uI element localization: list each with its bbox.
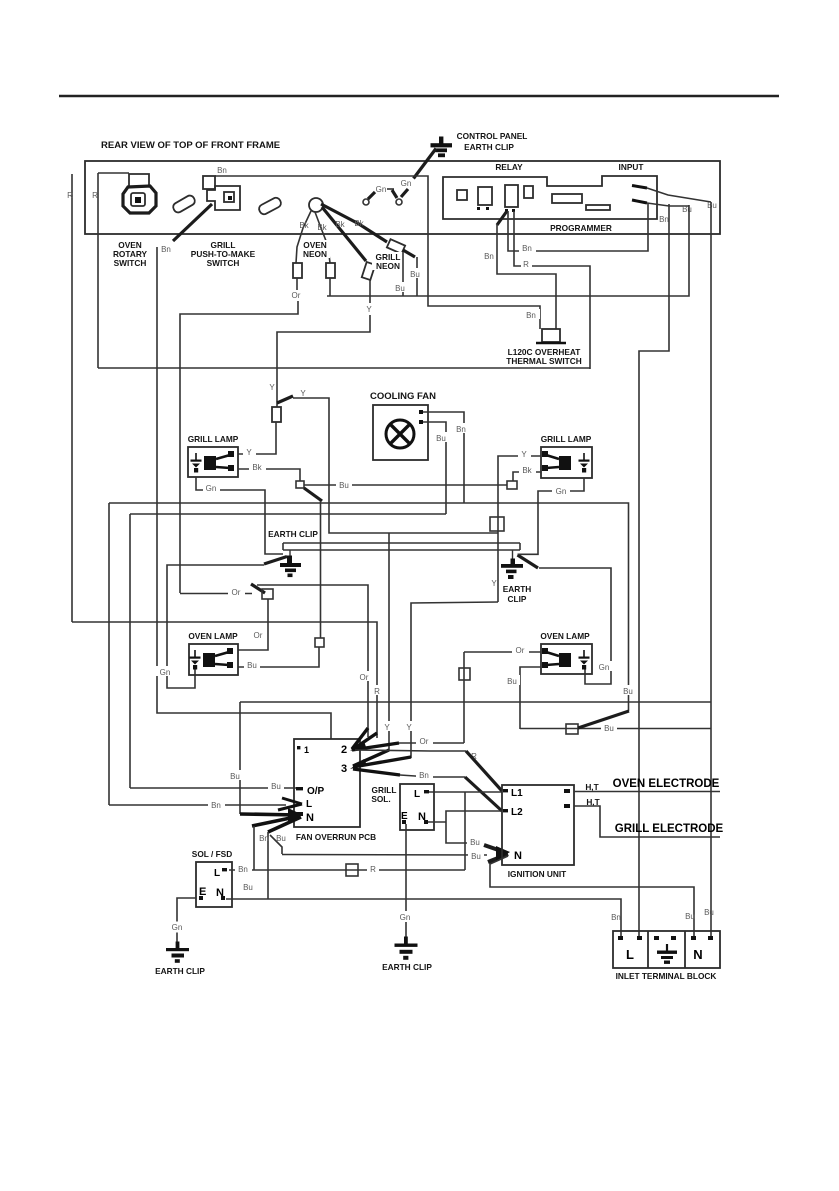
- wire: Y branch to bus 533: [293, 398, 498, 533]
- oven neon bulb: [309, 198, 323, 212]
- label Bu ign2: [468, 850, 484, 860]
- svg-text:GRILL ELECTRODE: GRILL ELECTRODE: [615, 823, 724, 835]
- fan pin 1: [419, 410, 423, 414]
- label Bu: [407, 268, 423, 278]
- label Y drop1: [381, 721, 394, 731]
- svg-text:Y: Y: [384, 723, 390, 732]
- svg-text:Bn: Bn: [217, 166, 227, 175]
- wire: R line from pin 3 to ignition L1: [355, 750, 466, 751]
- svg-text:FAN OVERRUN PCB: FAN OVERRUN PCB: [296, 832, 376, 842]
- label R on relay wire: [521, 259, 532, 268]
- Gn connector 1: [363, 185, 394, 205]
- svg-text:Y: Y: [521, 450, 527, 459]
- wire: earth clip feed + Gn drop to oven lamp: [167, 565, 264, 688]
- label Or at oven lamp: [250, 629, 267, 639]
- svg-text:THERMAL SWITCH: THERMAL SWITCH: [506, 356, 581, 366]
- wire: R riser to bottom R line: [464, 792, 466, 870]
- label Gn: [203, 482, 220, 492]
- label R bottom: [367, 863, 379, 873]
- wire: Bn input drop to inlet L: [639, 204, 669, 936]
- svg-text:Bk: Bk: [317, 223, 327, 232]
- wire: bus514 drop to PCB O/P: [129, 514, 131, 788]
- svg-text:CLIP: CLIP: [508, 594, 527, 604]
- inlet divider 2: [684, 931, 686, 968]
- programmer component 5: [552, 194, 582, 203]
- wire: Y from bus533 to pin3: [388, 533, 390, 751]
- wire: L2 horizontal + drop: [446, 811, 502, 843]
- svg-text:EARTH CLIP: EARTH CLIP: [464, 142, 514, 152]
- arrow Bu1 into ignition N: [484, 845, 507, 853]
- programmer box: [443, 176, 657, 219]
- svg-text:Bu: Bu: [682, 205, 692, 214]
- svg-text:Or: Or: [420, 737, 429, 746]
- label Bu fan: [433, 432, 449, 442]
- labels: GRILL PUSH-TO-MAKE SWITCH: [191, 240, 256, 268]
- control panel earth clip ground symbol: [431, 137, 453, 158]
- svg-text:PROGRAMMER: PROGRAMMER: [550, 223, 612, 233]
- wire: Or drop to pin2 line: [463, 652, 465, 743]
- svg-text:2: 2: [341, 744, 347, 756]
- Y branch blade: [277, 396, 293, 403]
- frame box: rear view of front frame: [85, 161, 720, 234]
- svg-text:L1: L1: [511, 788, 523, 799]
- svg-text:OVEN LAMP: OVEN LAMP: [540, 631, 590, 641]
- wire: grill sol N to ignition N: [428, 821, 446, 823]
- Or switch blade: [251, 584, 265, 593]
- label Bu2: [392, 282, 408, 292]
- label Bn sol: [235, 863, 252, 873]
- svg-text:Bn: Bn: [259, 834, 269, 843]
- Bu switch blade: [578, 711, 629, 728]
- svg-text:N: N: [693, 947, 702, 962]
- svg-text:Bn: Bn: [526, 311, 536, 320]
- wire: Bu2 line into ignition N: [282, 854, 487, 857]
- svg-text:R: R: [370, 865, 376, 874]
- svg-text:OVEN ELECTRODE: OVEN ELECTRODE: [613, 778, 720, 790]
- svg-text:Gn: Gn: [599, 663, 610, 672]
- wire: bus y=622 (R to PCB pin2): [72, 622, 377, 738]
- wire: grill sol E to earth clip: [405, 824, 407, 938]
- svg-text:1: 1: [304, 745, 309, 755]
- wire: Or switch to oven lamp: [238, 599, 268, 650]
- label Bn pin3: [416, 769, 433, 779]
- svg-text:IGNITION UNIT: IGNITION UNIT: [508, 869, 567, 879]
- svg-text:Bn: Bn: [456, 425, 466, 434]
- label Y right lamp: [518, 448, 531, 458]
- svg-text:H,T: H,T: [585, 782, 598, 792]
- wire: Y down-left: [277, 315, 370, 407]
- svg-text:O/P: O/P: [307, 786, 325, 797]
- svg-text:R: R: [374, 687, 380, 696]
- svg-text:Bu: Bu: [410, 270, 420, 279]
- wire: long R bus y=368: [98, 367, 590, 369]
- svg-text:Bu: Bu: [707, 201, 717, 210]
- label Bn on relay wire: [519, 243, 536, 252]
- label Bu right lamp: [504, 675, 520, 685]
- svg-text:L: L: [214, 868, 220, 879]
- inlet terminal block box: [613, 931, 720, 968]
- svg-text:Gn: Gn: [556, 487, 567, 496]
- svg-text:Bk: Bk: [335, 220, 345, 229]
- relay component 2: [478, 187, 492, 205]
- L120C overheat thermal switch: [542, 329, 560, 342]
- wire: Bn from grill switch along frame: [215, 176, 540, 329]
- svg-text:Y: Y: [300, 389, 306, 398]
- wire: Or line into pin 2: [399, 742, 464, 744]
- oven lamp right box: [541, 644, 592, 674]
- svg-text:EARTH: EARTH: [503, 584, 532, 594]
- oven lamp right bulb glyph: [542, 648, 571, 668]
- svg-text:Bn: Bn: [211, 801, 221, 810]
- grill neon output diagonal: [403, 250, 415, 257]
- sol/fsd pin marks: [199, 896, 203, 900]
- svg-text:OVEN LAMP: OVEN LAMP: [188, 631, 238, 641]
- label GRILL NEON: [372, 252, 403, 270]
- wire: Bu bus y=485: [304, 484, 507, 486]
- label Bk: [249, 461, 266, 471]
- wire: oven electrode line: [574, 791, 720, 793]
- right earth clip blade: [518, 555, 539, 568]
- arrows into pin 2: [352, 728, 399, 750]
- resistor D grill neon (tilted): [387, 239, 405, 254]
- svg-text:Y: Y: [406, 723, 412, 732]
- wire: blade down to Bu connector: [320, 501, 322, 638]
- ignition HT pin 2: [564, 804, 570, 808]
- wire: resistor C to Y: [369, 280, 371, 303]
- ignition HT pin 1: [564, 789, 570, 793]
- arrows into N: [240, 814, 301, 832]
- svg-text:Gn: Gn: [376, 185, 387, 194]
- svg-text:Bu: Bu: [243, 883, 253, 892]
- grill sol box: [400, 784, 434, 830]
- wire: grill switch Bn diagonal down: [173, 204, 212, 241]
- resistor B: [326, 263, 335, 278]
- wire: Bu drop from bus702 to N: [239, 702, 241, 814]
- wire: grill neon Bu left: [402, 252, 404, 296]
- svg-text:Bk: Bk: [299, 221, 309, 230]
- Or switch connector square: [262, 589, 273, 599]
- wire R left outer: [71, 174, 73, 622]
- svg-text:Bu: Bu: [436, 434, 446, 443]
- cooling fan symbol: [386, 420, 414, 448]
- wire: relay Bn to input (horizontal): [508, 203, 648, 251]
- svg-text:Or: Or: [254, 631, 263, 640]
- grill sol pin marks: [402, 820, 406, 824]
- label Gn bottom mid: [397, 911, 415, 922]
- svg-text:Bn: Bn: [522, 244, 532, 253]
- grill lamp right earth symbol: [579, 453, 590, 473]
- label Bn L feed: [208, 799, 225, 809]
- switch blade Bk: [304, 488, 322, 501]
- svg-text:INLET TERMINAL BLOCK: INLET TERMINAL BLOCK: [616, 971, 717, 981]
- wire: input pin2 fan-out: [647, 203, 689, 206]
- svg-text:Gn: Gn: [160, 668, 171, 677]
- wire: grill lamp Bk: [238, 469, 300, 481]
- wire: Bu drop to ignition N line: [270, 835, 282, 854]
- wire: resistor B to bus: [329, 278, 331, 296]
- wire: grill lamp right Y: [498, 456, 541, 602]
- resistor Y: [272, 407, 281, 422]
- wire: Bn down left side to PCB pin1: [157, 247, 331, 739]
- svg-text:GRILL LAMP: GRILL LAMP: [188, 434, 239, 444]
- grill lamp right bulb glyph: [542, 451, 571, 471]
- wire: bus503 drop to PCB L: [108, 503, 110, 805]
- svg-text:Bu: Bu: [271, 782, 281, 791]
- wire: Bu input drop to inlet N: [710, 202, 712, 936]
- svg-text:SOL / FSD: SOL / FSD: [192, 849, 232, 859]
- wire: Y from grill lamp right to pin3: [411, 602, 498, 758]
- svg-text:NEON: NEON: [303, 249, 327, 259]
- svg-text:REAR VIEW OF TOP OF FRONT FRAM: REAR VIEW OF TOP OF FRONT FRAME: [101, 140, 280, 151]
- svg-text:Bu: Bu: [470, 838, 480, 847]
- svg-text:Y: Y: [246, 448, 252, 457]
- svg-text:Gn: Gn: [172, 923, 183, 932]
- wire: Bu input drop to bus 296: [327, 205, 689, 296]
- wire: L1 horizontal: [429, 791, 502, 793]
- wire: input pin1 to Bu drop: [647, 188, 711, 202]
- wire: oven lamp right Bu: [520, 667, 541, 729]
- oven lamp left box: [189, 644, 238, 675]
- svg-text:L: L: [306, 799, 312, 810]
- connector square mid (on Y line): [490, 517, 504, 531]
- fan overrun PCB box: [294, 739, 360, 827]
- svg-text:Or: Or: [292, 291, 301, 300]
- svg-text:R: R: [523, 260, 529, 269]
- svg-text:Bn: Bn: [659, 215, 669, 224]
- svg-text:L: L: [414, 789, 420, 800]
- svg-text:Or: Or: [232, 588, 241, 597]
- svg-text:Bn: Bn: [611, 913, 621, 922]
- svg-text:Y: Y: [269, 383, 275, 392]
- svg-text:N: N: [306, 812, 314, 824]
- svg-text:Bu: Bu: [471, 852, 481, 861]
- thick diagonal to L2: [465, 777, 502, 811]
- connector square Bu switch: [566, 724, 578, 734]
- svg-text:Or: Or: [516, 646, 525, 655]
- svg-text:Bu: Bu: [276, 834, 286, 843]
- bottom mid earth clip: [395, 937, 418, 960]
- bus y=503: [109, 503, 629, 711]
- svg-text:CONTROL PANEL: CONTROL PANEL: [457, 131, 528, 141]
- label Bu on line: [601, 722, 617, 732]
- grill lamp left box: [188, 447, 238, 477]
- svg-text:GRILL LAMP: GRILL LAMP: [541, 434, 592, 444]
- top rule: [59, 95, 779, 97]
- grill lamp left earth symbol: [191, 453, 202, 473]
- relay pin dots: [477, 207, 480, 210]
- Gn connector 2: [392, 179, 411, 205]
- svg-text:L: L: [626, 947, 634, 962]
- label Gn right: [552, 485, 570, 495]
- label Bu drop: [227, 770, 243, 780]
- svg-text:COOLING FAN: COOLING FAN: [370, 391, 436, 402]
- svg-text:Bk: Bk: [252, 463, 262, 472]
- left earth clip symbol: [280, 550, 301, 577]
- svg-text:Y: Y: [491, 579, 497, 588]
- svg-text:NEON: NEON: [376, 261, 400, 271]
- relay component 3: [505, 185, 518, 207]
- wire: Bn drop to bottom: [253, 826, 255, 870]
- label R ign: [468, 750, 480, 760]
- svg-text:Or: Or: [360, 673, 369, 682]
- grill push-to-make switch: [203, 176, 240, 210]
- label Bn at thermal switch: [523, 309, 540, 319]
- resistor A: [293, 263, 302, 278]
- wire: grill lamp right Bk: [513, 472, 541, 481]
- wire: fan Bu: [423, 422, 446, 514]
- wire: relay Bn to thermal switch (left drop): [497, 211, 507, 225]
- svg-text:EARTH CLIP: EARTH CLIP: [155, 966, 205, 976]
- label Or on drop: [356, 671, 373, 681]
- sol/fsd box: [196, 862, 232, 907]
- connector square Bk: [296, 481, 304, 488]
- connector square on R line: [346, 864, 358, 876]
- wire: grill lamp right Gn: [518, 478, 585, 554]
- label Gn oven right: [595, 661, 613, 671]
- inlet divider 1: [647, 931, 649, 968]
- svg-text:Bu: Bu: [395, 284, 405, 293]
- svg-text:Bu: Bu: [604, 724, 614, 733]
- grill lamp left bulb glyph: [204, 451, 234, 471]
- svg-text:Bu: Bu: [685, 912, 695, 921]
- earth clip bus bar: [283, 543, 520, 550]
- labels: OVEN ROTARY SWITCH: [113, 240, 148, 268]
- ignition L1 pin: [503, 789, 508, 792]
- PCB N pin: [294, 812, 303, 816]
- relay component 1: [457, 190, 467, 200]
- label Bu bus: [336, 479, 352, 489]
- svg-text:R: R: [92, 191, 98, 200]
- wire: sol N up: [226, 898, 268, 900]
- arrows into pin 3: [353, 750, 411, 775]
- svg-text:Gn: Gn: [206, 484, 217, 493]
- ignition unit box: [502, 785, 574, 865]
- svg-text:Bu: Bu: [339, 481, 349, 490]
- neon leg B: [315, 212, 330, 263]
- svg-text:Y: Y: [366, 305, 372, 314]
- neon leg A: [296, 211, 311, 263]
- cooling fan box: [373, 405, 428, 460]
- wire: oven lamp right Or: [464, 651, 541, 653]
- svg-text:SWITCH: SWITCH: [114, 258, 147, 268]
- inlet pin marks: [618, 936, 623, 940]
- svg-text:Bu: Bu: [247, 661, 257, 670]
- wire: ignition N out to inlet: [490, 856, 694, 936]
- wire: Y to grill lamp: [238, 422, 276, 454]
- svg-text:Gn: Gn: [400, 913, 411, 922]
- bottom left earth clip: [166, 942, 189, 963]
- PCB pin 1: [297, 746, 300, 749]
- programmer component 6: [586, 205, 610, 210]
- wire: resistor A to Or: [296, 278, 298, 290]
- connector square right: [507, 481, 517, 489]
- PCB O/P pin: [296, 787, 303, 790]
- label Bu ign1: [467, 836, 483, 846]
- svg-text:Bn: Bn: [161, 245, 171, 254]
- svg-text:Bu: Bu: [507, 677, 517, 686]
- right earth clip symbol: [501, 550, 523, 579]
- svg-text:Bk: Bk: [354, 219, 364, 228]
- svg-text:Bk: Bk: [522, 466, 532, 475]
- wire: Bn line into pin 3 / to ignition L2: [400, 775, 465, 777]
- svg-text:Bn: Bn: [238, 865, 248, 874]
- label Y branch: [297, 388, 309, 397]
- wire: grill neon Bu right: [416, 257, 418, 296]
- svg-text:INPUT: INPUT: [619, 162, 644, 172]
- wire: connector to oven lamp Bu: [238, 647, 319, 667]
- relay component 4: [524, 186, 533, 198]
- label Y at lamp: [243, 446, 256, 456]
- connector square Bu (oven lamp): [315, 638, 324, 647]
- svg-text:RELAY: RELAY: [495, 162, 523, 172]
- label Or switch: [228, 586, 245, 596]
- label Bn fan: [453, 423, 470, 433]
- wire: oven lamp right Gn to clip: [539, 568, 611, 684]
- label Bu above blade: [620, 685, 636, 695]
- wire: bus y=899 to inlet L: [268, 899, 621, 936]
- oven lamp left bulb glyph: [203, 648, 233, 668]
- wire: grill lamp Gn: [196, 477, 283, 554]
- left earth clip blade: [264, 557, 287, 565]
- label Bu O/P feed: [268, 780, 284, 790]
- svg-text:EARTH CLIP: EARTH CLIP: [382, 962, 432, 972]
- input pin 2: [632, 200, 647, 203]
- svg-text:N: N: [514, 850, 522, 862]
- svg-text:L2: L2: [511, 807, 523, 818]
- wire: control panel earth clip lead (diagonal): [414, 149, 437, 179]
- wire: sol E to earth clip: [177, 898, 196, 944]
- label Bu on Bn drop: [240, 881, 256, 891]
- wire: Or down-left: [180, 301, 298, 593]
- arrow Bu2 into ignition N: [488, 854, 508, 862]
- svg-text:SWITCH: SWITCH: [207, 258, 240, 268]
- label Bn relay drop: [483, 250, 496, 260]
- connector lug 1: [172, 194, 197, 214]
- svg-text:Bn: Bn: [484, 252, 494, 261]
- wire: Bu drop to bus 899: [267, 832, 269, 899]
- wire: Bu switch line y=729: [520, 728, 711, 730]
- wire: rotary switch feed from frame: [98, 172, 129, 174]
- wire: bus y=702: [240, 701, 711, 703]
- label Gn lower: [156, 666, 174, 676]
- bus y=514: [130, 513, 446, 515]
- input pin 1: [632, 186, 647, 189]
- wire: fan Bn: [423, 412, 464, 503]
- wire: PCB L feed: [109, 804, 286, 806]
- connector lug 2: [257, 196, 282, 216]
- resistor C (tilted): [362, 262, 376, 280]
- label OVEN NEON: [300, 240, 330, 258]
- oven lamp right earth symbol: [579, 650, 590, 670]
- label Gn bottom left: [169, 922, 185, 933]
- oven lamp left earth symbol: [190, 650, 201, 670]
- svg-text:Bu: Bu: [623, 687, 633, 696]
- thick diagonal to L1: [466, 751, 502, 791]
- wire: Or switch to PCB pin2 (via x=368): [257, 585, 368, 737]
- label EARTH CLIP right: [503, 584, 532, 604]
- grill sol label: [371, 785, 396, 804]
- grill lamp right box: [541, 447, 592, 478]
- wire: PCB O/P feed: [130, 787, 296, 789]
- arrow into L: [278, 798, 302, 810]
- svg-text:R: R: [67, 191, 73, 200]
- Or switch: feed line: [180, 593, 252, 595]
- svg-text:Bn: Bn: [419, 771, 429, 780]
- oven rotary switch: [123, 174, 156, 213]
- wire: bottom R line from sol L: [229, 869, 465, 871]
- neon leg D (thick): [321, 204, 387, 242]
- label Bk right: [519, 464, 536, 474]
